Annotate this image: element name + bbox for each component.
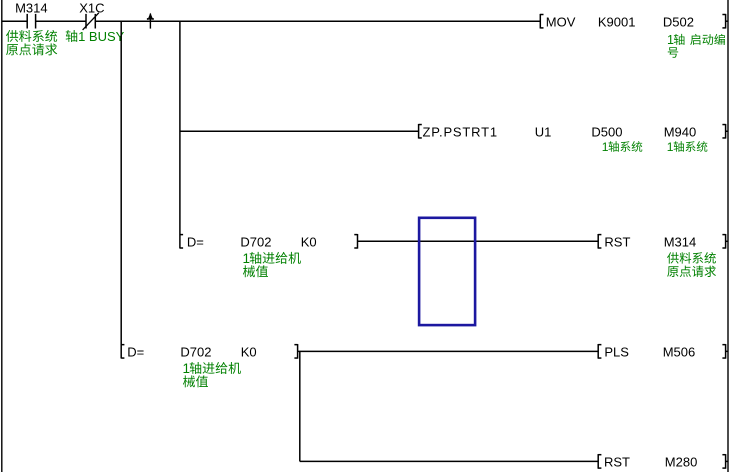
instruction RST M314 [597, 234, 599, 249]
svg-text:ZP.PSTRT1: ZP.PSTRT1 [423, 124, 498, 139]
svg-text:D500: D500 [591, 124, 622, 139]
svg-text:PLS: PLS [604, 345, 629, 360]
svg-text:MOV: MOV [546, 14, 576, 29]
wire rung5: branch to RST M280 [300, 460, 598, 462]
svg-text:M314: M314 [15, 0, 48, 15]
svg-text:M506: M506 [663, 345, 696, 360]
svg-text:M280: M280 [665, 455, 698, 470]
svg-text:RST: RST [604, 455, 630, 470]
svg-text:D=: D= [127, 345, 144, 360]
right power rail [727, 0, 729, 472]
wire M314 to X1C [36, 20, 86, 22]
branch wire down to rung3 D= [179, 21, 181, 248]
contact M314 (NO) [26, 14, 28, 29]
svg-text:1: 1 [602, 140, 609, 154]
instruction MOV K9001 D502 [539, 14, 541, 29]
wire D= to PLS [298, 350, 599, 352]
cursor arrow marker on rung1 [149, 14, 151, 29]
svg-text:U1: U1 [535, 124, 552, 139]
contact X1C (NC) [85, 14, 87, 29]
wire X1C to MOV [95, 20, 540, 22]
svg-text:M314: M314 [664, 235, 697, 250]
svg-text:1: 1 [667, 140, 674, 154]
svg-text:1 BUSY: 1 BUSY [78, 29, 125, 44]
svg-text:D702: D702 [180, 345, 211, 360]
svg-text:K0: K0 [301, 235, 317, 250]
left power rail [1, 0, 3, 472]
branch wire down to rung5 [299, 351, 301, 461]
branch wire down to rung4 D= [120, 21, 122, 358]
svg-text:X1C: X1C [79, 0, 104, 15]
comment of X1C: 轴1 BUSY [66, 30, 78, 42]
comment of M314: 供料系统原点请求 [667, 252, 679, 263]
svg-text:1: 1 [243, 251, 251, 266]
instruction RST M280 [597, 454, 599, 469]
instruction PLS M506 [597, 344, 599, 359]
comment of M314: 供料系统原点请求 [6, 30, 18, 42]
instruction ZP.PSTRT1 U1 D500 M940 [418, 124, 420, 139]
svg-text:D702: D702 [240, 235, 271, 250]
svg-text:1: 1 [667, 33, 674, 47]
selection cursor rectangle [419, 218, 475, 325]
svg-text:1: 1 [183, 361, 191, 376]
wire D= to RST [358, 240, 599, 242]
wire rung2: branch to ZP.PSTRT1 [180, 130, 419, 132]
svg-text:RST: RST [604, 235, 630, 250]
svg-text:D502: D502 [663, 14, 694, 29]
wire rung1: rail to contact M314 [2, 20, 27, 22]
svg-text:M940: M940 [664, 124, 697, 139]
svg-text:K9001: K9001 [598, 14, 636, 29]
svg-text:K0: K0 [241, 345, 257, 360]
svg-text:D=: D= [187, 235, 204, 250]
